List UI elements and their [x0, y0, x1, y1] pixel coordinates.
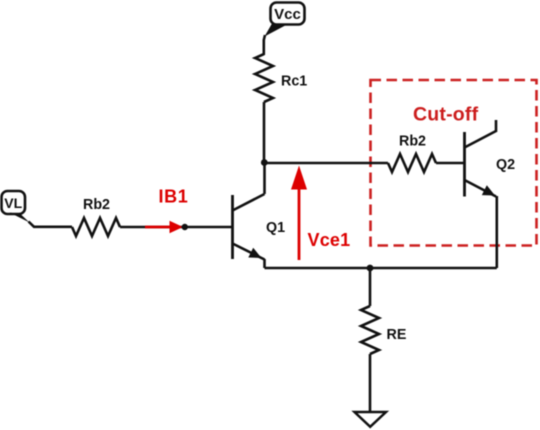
- svg-text:Rc1: Rc1: [281, 74, 307, 90]
- voltage arrow Vce1: [291, 166, 307, 261]
- resistor Rb2 (inside cut-off box): [388, 154, 436, 172]
- svg-text:Cut-off: Cut-off: [413, 104, 479, 126]
- label Q1: [266, 220, 285, 236]
- wire Q2 emitter down to bottom rail: [495, 196, 498, 268]
- svg-text:RE: RE: [387, 327, 407, 343]
- wire Q1 emitter down to bottom rail: [263, 259, 266, 268]
- svg-text:Q1: Q1: [266, 220, 285, 236]
- svg-text:IB1: IB1: [159, 187, 189, 207]
- wire Rb2 to Q2 base: [436, 162, 464, 165]
- wire bottom rail: [265, 267, 497, 270]
- wire Vcc flag to Rc1: [264, 35, 265, 55]
- wire node to RE: [369, 268, 372, 306]
- label Vce1: [308, 230, 351, 250]
- label Rb2 (right): [399, 134, 426, 150]
- label IB1: [159, 187, 189, 207]
- resistor RE: [361, 306, 379, 354]
- transistor Q2: [465, 120, 497, 197]
- node junction dot above RE: [367, 265, 374, 272]
- node junction dot at Q1 base: [182, 224, 188, 230]
- transistor Q1: [233, 194, 265, 260]
- power flag Vcc: [265, 3, 305, 37]
- label RE: [387, 327, 407, 343]
- resistor Rb2 (left): [72, 218, 120, 236]
- label Rb2 (left): [83, 197, 110, 213]
- svg-text:VL: VL: [4, 195, 22, 211]
- wire Rc1 to collector node: [263, 102, 266, 163]
- wire Q1 collector up to node: [263, 163, 266, 194]
- wire Rb2 to Q1 base: [120, 226, 232, 229]
- svg-text:Rb2: Rb2: [399, 134, 426, 150]
- svg-text:Vcc: Vcc: [274, 6, 301, 23]
- ground: [355, 412, 387, 427]
- label Q2: [496, 157, 515, 173]
- red dashed cut-off region box: [371, 80, 537, 246]
- svg-text:Vce1: Vce1: [308, 230, 351, 250]
- svg-text:Q2: Q2: [496, 157, 515, 173]
- input flag VL: [2, 191, 30, 223]
- svg-text:Rb2: Rb2: [83, 197, 110, 213]
- current arrow IB1: [145, 221, 183, 233]
- resistor Rc1: [255, 54, 273, 102]
- wire RE to ground: [369, 354, 372, 412]
- wire VL flag to Rb2 (left): [29, 222, 73, 227]
- label Rc1: [281, 74, 307, 90]
- node junction dot at collector: [261, 159, 268, 166]
- label Cut-off: [413, 104, 479, 126]
- wire collector node to Rb2 (right): [264, 162, 388, 165]
